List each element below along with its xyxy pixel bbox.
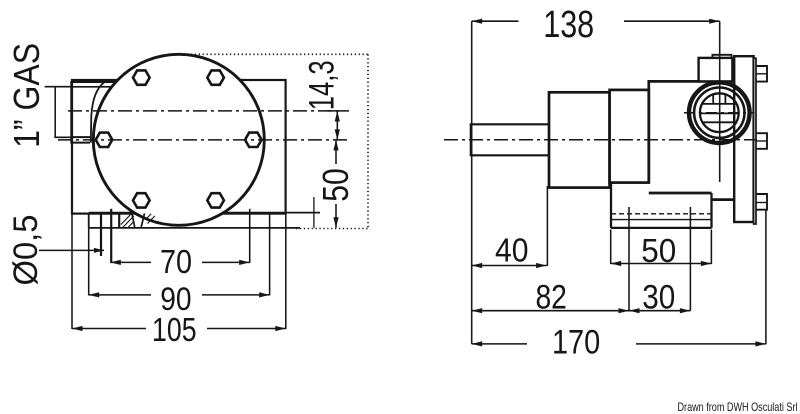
bolt boss middle [756,133,767,149]
svg-text:70: 70 [160,243,192,280]
hose port bore [700,93,739,132]
main centerline lower [58,139,349,141]
svg-text:138: 138 [543,4,594,46]
LEFT VIEW [6,43,369,348]
svg-text:40: 40 [495,231,529,268]
138 extension left / 170-40-82 extension left [471,21,473,344]
port centerline upper [68,110,339,112]
mounting slot lines left [100,213,102,256]
foot step line [611,219,712,221]
mounting foot side [611,183,712,228]
svg-text:14,3: 14,3 [303,60,342,110]
bolt boss bottom [756,194,767,210]
hex bolt mid-right [245,133,262,147]
inlet flange 1 inch GAS [71,82,115,143]
gasket plate [754,58,756,224]
bolt boss top [756,66,767,82]
hex bolt bottom-right [207,193,224,207]
svg-text:170: 170 [552,324,600,362]
pump casing body [649,81,735,182]
port center vertical / 138 extension right [719,21,721,182]
discharge port top [699,58,733,82]
plate left edge [88,213,90,228]
svg-text:105: 105 [152,311,197,348]
port centerline horizontal [684,112,755,114]
bore flats [700,95,739,123]
plate top edge [89,212,320,214]
hose port middle ring [694,88,744,138]
pump body square plate [72,80,286,214]
hose port outer ring [689,82,750,143]
hex bolts [96,70,262,207]
flange inner top line [71,86,111,88]
right short tick [313,197,315,228]
1 GAS bracket [45,86,73,88]
base plate [89,197,320,263]
pump face circle [93,54,264,225]
flange fillet curve [91,83,104,143]
main shaft centerline [444,139,757,141]
hex bolt top-left [133,70,150,84]
baseplate rib section over circle [132,213,155,227]
foot hidden slot line [611,213,712,215]
hex bolt top-right [207,70,224,84]
foot slot extension lines [628,207,630,311]
flange outline [71,82,115,143]
shaft [471,124,549,155]
flange inner bottom line [71,136,90,138]
dotted outline box [187,54,369,228]
centerlines [58,111,349,140]
svg-text:Drawn from DWH Osculati Srl: Drawn from DWH Osculati Srl [678,400,798,414]
leader line for hole [39,249,104,251]
extension lines bottom [249,209,251,263]
RIGHT VIEW [444,4,767,362]
dimensions left [6,43,369,348]
end cover flange plate [734,56,753,222]
bearing housing block [549,92,610,187]
hex bolt bottom-left [133,193,150,207]
170 extension right [765,210,767,344]
hatching [121,214,134,228]
port top tab [712,55,731,58]
svg-text:50: 50 [315,168,356,202]
hex bolt mid-left [96,133,113,147]
middle block [610,90,649,183]
svg-text:1” GAS: 1” GAS [6,43,47,148]
plate bottom edge [89,227,300,229]
